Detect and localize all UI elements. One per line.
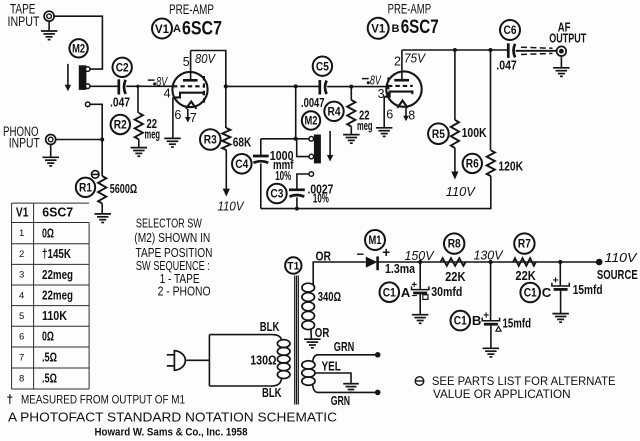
svg-text:GRN: GRN [331, 393, 350, 408]
wire rail to C1C [559, 262, 561, 286]
svg-text:6: 6 [19, 331, 24, 342]
svg-text:130Ω: 130Ω [250, 354, 276, 368]
ground (C1C) [552, 314, 569, 323]
V1A cathode (pin 6) [173, 93, 204, 98]
capacitor C1C [552, 283, 569, 290]
ground (C1A) [412, 315, 429, 324]
wire phono jack to node [55, 139, 102, 141]
svg-text:PRE-AMP: PRE-AMP [388, 1, 432, 17]
switch M2 wiper travel arrow [67, 64, 69, 86]
wire C5 to V1B grid pin 3 [327, 86, 386, 88]
node R6/C6 junction [489, 48, 493, 52]
wire plug to primary [186, 359, 209, 361]
wire C5 node down to switch [295, 87, 297, 139]
resistor R2 [135, 113, 143, 139]
svg-text:110V: 110V [446, 184, 476, 199]
switch M2-EQ wiper travel arrow [329, 131, 331, 156]
svg-text:†: † [7, 392, 14, 406]
capacitor C4 designator [232, 154, 252, 174]
svg-text:3: 3 [19, 270, 24, 281]
capacitor C5 designator [313, 56, 332, 75]
node R5 junction [453, 48, 457, 52]
wire tape jack to switch contact 1 [54, 16, 103, 69]
terminal dot (GRN bottom) [375, 390, 381, 396]
V1B grid (pin 3, dashed) [388, 85, 413, 87]
svg-text:A: A [401, 286, 411, 300]
resistor R5 designator [428, 123, 449, 144]
svg-text:(M2) SHOWN IN: (M2) SHOWN IN [134, 231, 210, 245]
resistor R3 designator [200, 129, 221, 150]
svg-text:8: 8 [408, 109, 415, 123]
transformer T1 designator [285, 257, 301, 273]
T1 primary winding 130 ohm [277, 340, 290, 348]
wire heater bottom GRN [313, 385, 375, 393]
wire contact 2 to C2 [90, 85, 119, 87]
node C2/R2 junction [136, 85, 139, 88]
tube V1 designator (section B) [368, 18, 389, 39]
switch M2 contact 3 (phono) [85, 102, 90, 107]
resistor R4 designator [324, 102, 343, 121]
svg-text:7: 7 [190, 111, 197, 125]
svg-text:7: 7 [19, 352, 24, 363]
V1A heater [186, 102, 197, 109]
svg-text:22K: 22K [445, 270, 465, 284]
svg-text:110V: 110V [605, 250, 638, 265]
svg-text:R5: R5 [432, 129, 446, 141]
svg-text:meg: meg [145, 128, 161, 142]
svg-text:GRN: GRN [334, 339, 354, 354]
triode V1A envelope [172, 72, 207, 107]
wire C6 to AF output jack [516, 50, 557, 52]
wire secondary top to rectifier [313, 262, 345, 285]
wire 150V node to C1A [419, 262, 421, 289]
wire V1B plate to C6 [402, 49, 508, 51]
capacitor C1 designator (B) [451, 311, 471, 331]
V1B plate and lead (pin 2) [394, 79, 409, 82]
ground (R2) [138, 139, 140, 147]
parts-list marker for R1 [91, 171, 99, 179]
svg-text:YEL: YEL [322, 359, 341, 374]
selector switch M2 designator [69, 39, 87, 57]
capacitor C6 [508, 43, 515, 58]
svg-text:−: − [412, 291, 418, 302]
ground (AF output) [560, 56, 562, 68]
V1B heater pin 8 arrow [405, 108, 407, 117]
capacitor C3 [289, 190, 305, 197]
svg-text:INPUT: INPUT [8, 14, 40, 29]
svg-text:SELECTOR SW: SELECTOR SW [136, 216, 202, 230]
svg-text:C: C [542, 286, 552, 300]
svg-text:C5: C5 [316, 61, 330, 73]
ground (C1B) [483, 348, 500, 357]
phono input jack [46, 135, 56, 145]
wire C1A to ground [419, 293, 421, 315]
svg-text:110V: 110V [218, 199, 245, 214]
svg-text:OUTPUT: OUTPUT [549, 31, 586, 45]
svg-text:8V: 8V [370, 73, 382, 87]
svg-text:V1: V1 [16, 205, 29, 220]
node V1A plate junction [224, 84, 228, 88]
ground (phono input) [50, 144, 52, 157]
capacitor C1 designator (A) [380, 282, 400, 302]
capacitor C4 [253, 156, 269, 163]
resistor R8 [441, 258, 466, 266]
wire C2 to V1A grid pin 4 [126, 85, 173, 87]
ground (heater center tap) [343, 384, 359, 393]
svg-text:+: + [483, 310, 489, 321]
node C5/EQ junction [294, 84, 298, 88]
capacitor C1B [482, 318, 499, 325]
wire C4 top lead [260, 139, 262, 156]
transformer T1 core [295, 276, 299, 405]
svg-text:0Ω: 0Ω [42, 226, 54, 240]
terminal dot 110V source [596, 259, 603, 266]
ground (secondary) [304, 339, 321, 348]
resistor R4 [350, 87, 352, 100]
svg-text:C1: C1 [454, 316, 468, 328]
wire node to R1 [101, 140, 103, 177]
svg-text:2: 2 [394, 55, 401, 69]
ground (V1B cathode) [376, 128, 393, 137]
C1B section marker triangle [496, 327, 501, 332]
T1 secondary winding 340 ohm [302, 283, 315, 292]
node C4/switch junction [294, 137, 298, 141]
resistor R3 [225, 86, 227, 128]
V1A plate and lead (pin 5) [183, 79, 198, 82]
resistor R7 designator [514, 233, 534, 253]
svg-text:R7: R7 [518, 239, 531, 251]
svg-text:6SC7: 6SC7 [42, 205, 73, 220]
wire heater top GRN [313, 355, 375, 362]
resistor R2 designator [111, 115, 130, 134]
ground (R1) [101, 204, 103, 214]
wire switch contact 3 to phono node [90, 104, 102, 139]
R3 return arrow to 110V [225, 150, 227, 190]
node R4 junction [349, 85, 353, 89]
capacitor C2 designator [113, 58, 132, 77]
R5 return arrow to 110V [454, 148, 456, 173]
svg-text:2: 2 [19, 249, 24, 260]
node phono/R1 junction [100, 138, 104, 142]
selector switch M2 (EQ) designator [302, 111, 320, 129]
diode M1 [366, 257, 378, 268]
V1A heater pin 7 arrow [187, 109, 189, 118]
svg-text:+: + [553, 276, 559, 287]
svg-text:C1: C1 [524, 288, 538, 300]
svg-text:2 - PHONO: 2 - PHONO [158, 285, 211, 299]
tube V1 designator (section A) [152, 19, 172, 39]
svg-text:0Ω: 0Ω [42, 330, 54, 344]
switch M2-EQ contact 2 [309, 154, 314, 159]
terminal dot (GRN top) [375, 352, 381, 358]
svg-text:.5Ω: .5Ω [42, 372, 57, 386]
svg-text:meg: meg [357, 119, 373, 133]
node 130V junction [489, 260, 493, 264]
wire node to switch contact 1 [261, 138, 309, 140]
svg-text:V1: V1 [155, 22, 169, 36]
svg-text:5: 5 [183, 55, 190, 69]
AC line plug [174, 351, 185, 371]
wire plate node to C5 [226, 85, 320, 87]
svg-text:110K: 110K [42, 309, 67, 323]
svg-text:TAPE POSITION: TAPE POSITION [136, 246, 213, 260]
svg-text:22meg: 22meg [42, 268, 73, 282]
capacitor C1A [412, 286, 429, 293]
svg-text:6SC7: 6SC7 [401, 17, 439, 38]
svg-text:68K: 68K [233, 134, 252, 149]
V1B grid side dash [387, 77, 389, 96]
svg-text:5600Ω: 5600Ω [110, 182, 138, 196]
ground (V1A cathode) [164, 138, 181, 147]
wire C1B to ground [490, 324, 492, 348]
node C3/EQ bottom junction [295, 207, 299, 211]
capacitor C6 designator [500, 20, 520, 40]
svg-text:120K: 120K [498, 158, 523, 173]
switch M2-EQ contact 1 [309, 137, 314, 142]
svg-text:C3: C3 [270, 189, 283, 201]
resistor R1 designator [76, 178, 95, 197]
wire secondary bottom to ground [310, 329, 312, 340]
wire junction to R2 [137, 86, 139, 113]
svg-text:C1: C1 [383, 287, 397, 299]
svg-text:T1: T1 [287, 261, 299, 273]
wire secondary to diode [345, 261, 366, 263]
svg-text:.047: .047 [496, 58, 517, 73]
svg-text:100K: 100K [462, 125, 487, 140]
capacitor C3 designator [267, 184, 287, 204]
svg-text:4: 4 [164, 86, 171, 100]
svg-text:+: + [411, 280, 417, 291]
capacitor C2 [119, 79, 126, 94]
svg-text:10%: 10% [313, 191, 329, 205]
svg-text:75V: 75V [404, 51, 426, 66]
svg-text:†145K: †145K [42, 247, 71, 261]
svg-text:C6: C6 [504, 25, 517, 37]
svg-text:R3: R3 [204, 135, 217, 147]
svg-text:BLK: BLK [262, 385, 282, 400]
wire contact 3 to C3 [297, 174, 309, 190]
svg-text:1: 1 [19, 228, 24, 239]
svg-text:R6: R6 [466, 159, 479, 171]
svg-text:.0047: .0047 [301, 96, 325, 110]
switch M2 contact 1 (tape) [85, 67, 90, 72]
svg-text:−: − [147, 73, 155, 88]
svg-text:6: 6 [386, 108, 393, 122]
svg-text:BLK: BLK [260, 319, 280, 334]
svg-text:15mfd: 15mfd [573, 283, 603, 297]
capacitor C5 [320, 80, 327, 95]
wire 130V node to C1B [490, 262, 492, 321]
svg-text:8: 8 [19, 373, 24, 384]
svg-text:SOURCE: SOURCE [597, 268, 638, 282]
wire C3 bottom lead [296, 197, 298, 208]
shielded lead dashes (bottom) [521, 53, 553, 54]
svg-text:C4: C4 [235, 159, 249, 171]
svg-text:OR: OR [316, 249, 332, 264]
svg-text:22K: 22K [515, 269, 535, 283]
svg-text:VALUE OR APPLICATION: VALUE OR APPLICATION [433, 387, 571, 401]
svg-text:OR: OR [315, 325, 330, 340]
resistor R6 designator [463, 154, 482, 173]
svg-text:22meg: 22meg [42, 289, 73, 303]
shielded lead dashes (top) [521, 47, 553, 48]
svg-text:M2: M2 [305, 116, 318, 128]
note see parts list marker [415, 377, 424, 386]
node C1C junction [558, 260, 562, 264]
rectifier M1 designator [365, 230, 385, 250]
svg-text:R2: R2 [114, 120, 127, 132]
heater center tap YEL [315, 373, 351, 384]
wire contact 2 to C4 node [296, 139, 309, 157]
node 150V junction [418, 260, 422, 264]
svg-text:Howard W. Sams & Co., Inc. 195: Howard W. Sams & Co., Inc. 1958 [95, 427, 248, 439]
wire V1A plate to node [191, 51, 226, 87]
T1 heater winding [302, 361, 315, 369]
resistor R1 [98, 176, 106, 203]
svg-text:1.3ma: 1.3ma [385, 262, 416, 276]
svg-text:−: − [357, 246, 365, 261]
wire C4 bottom lead [260, 164, 262, 209]
svg-text:.047: .047 [110, 94, 130, 109]
svg-text:5: 5 [19, 311, 24, 322]
svg-text:15mfd: 15mfd [503, 317, 532, 331]
resistor R6 [490, 50, 492, 150]
svg-text:B: B [472, 314, 482, 328]
V1B heater [397, 101, 407, 108]
svg-text:V1: V1 [371, 22, 385, 36]
ground (tape input) [48, 21, 50, 31]
switch M2 contact 2 (output) [85, 84, 90, 89]
svg-text:6SC7: 6SC7 [182, 19, 222, 40]
V1B cathode (pin 6) [384, 92, 412, 97]
wire C1C to ground [560, 289, 562, 313]
svg-text:R4: R4 [328, 106, 342, 118]
ground (R4) [350, 127, 352, 135]
svg-text:INPUT: INPUT [9, 135, 40, 150]
svg-text:PRE-AMP: PRE-AMP [169, 1, 214, 17]
AF output jack [557, 46, 567, 56]
tape input jack [44, 11, 54, 21]
C1A section marker square [423, 295, 428, 300]
V1A grid side dash [203, 76, 205, 106]
svg-text:340Ω: 340Ω [318, 290, 341, 304]
svg-text:4: 4 [19, 290, 24, 301]
svg-text:130V: 130V [474, 248, 504, 263]
svg-text:80V: 80V [195, 51, 216, 66]
svg-text:MEASURED FROM OUTPUT OF M1: MEASURED FROM OUTPUT OF M1 [21, 392, 185, 406]
svg-text:M2: M2 [72, 43, 85, 55]
resistor R5 [454, 50, 456, 120]
svg-text:R8: R8 [448, 239, 462, 251]
wire R6 to EQ bottom line [261, 176, 491, 209]
wire V1B cathode to ground [383, 97, 385, 128]
wire diode to 110V source [378, 261, 597, 263]
V1A grid (pin 4, dashed) [173, 85, 203, 87]
resistor R8 designator [444, 233, 464, 253]
svg-text:M1: M1 [369, 235, 382, 247]
svg-text:30mfd: 30mfd [431, 285, 462, 299]
svg-text:A PHOTOFACT STANDARD NOTATION: A PHOTOFACT STANDARD NOTATION SCHEMATIC [8, 410, 337, 424]
switch M2-EQ contact 3 [309, 172, 314, 177]
svg-text:B: B [392, 23, 400, 35]
triode V1B envelope [386, 71, 421, 106]
switch M2-EQ wiper bar [314, 135, 321, 164]
svg-text:A: A [173, 23, 181, 35]
svg-text:10%: 10% [275, 169, 291, 183]
svg-text:R1: R1 [79, 182, 93, 194]
svg-text:6: 6 [174, 108, 181, 122]
svg-text:C2: C2 [116, 62, 129, 74]
tube pin resistance table V1 6SC7 [12, 203, 90, 389]
capacitor C1 designator (C) [520, 283, 540, 303]
wire V1A cathode to ground [172, 97, 174, 138]
svg-text:.5Ω: .5Ω [42, 351, 57, 365]
resistor R7 [513, 258, 536, 266]
svg-text:+: + [382, 245, 390, 260]
switch M2 wiper bar [79, 65, 87, 90]
